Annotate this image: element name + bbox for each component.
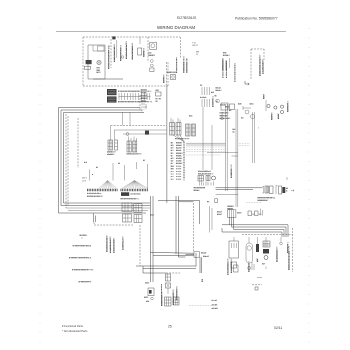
bus to compressor: [186, 143, 225, 145]
drain heater dash: [257, 277, 262, 279]
dispenser left ticks P9: [202, 87, 210, 95]
svg-text:240 V: 240 V: [82, 178, 88, 180]
control board connector J3 fan: [121, 181, 149, 191]
start device ticks: [200, 182, 214, 186]
damper drops: [111, 112, 130, 140]
dashed drop to auger line: [139, 225, 141, 266]
ice maker: [151, 44, 155, 48]
board-right wires: [158, 201, 200, 225]
svg-text:WIRING DIAGRAM: WIRING DIAGRAM: [157, 25, 195, 30]
damper wires: [111, 125, 167, 127]
auger feed line top: [136, 253, 196, 269]
svg-text:Publication No. 5995586077: Publication No. 5995586077: [235, 17, 278, 21]
left risers to funnel: [151, 196, 154, 282]
fold line left: [39, 28, 41, 348]
defrost bus lines: [216, 188, 263, 190]
svg-text:22: 22: [196, 54, 198, 56]
fresh food enclosure dashes: [242, 228, 293, 272]
dispenser risers: [253, 112, 255, 163]
compressor box double walls: [207, 104, 238, 207]
auger motor column: [166, 274, 171, 281]
water valve comb: [227, 210, 236, 218]
neutral dotted line: [189, 305, 211, 307]
defrost connector pair B: [127, 137, 142, 156]
svg-text:1. SEE TECH DATA: 1. SEE TECH DATA: [73, 244, 92, 247]
flow arrow: [245, 81, 249, 85]
connector grid pair 1: [170, 118, 182, 135]
freezer terminal block dark: [107, 89, 117, 95]
svg-text:# Functional Parts: # Functional Parts: [62, 324, 84, 328]
valve body boxes: [248, 211, 252, 216]
lower dashes: [252, 284, 262, 286]
freezer section enclosure: [83, 37, 180, 86]
mullion heater bar: [256, 244, 259, 252]
freezer ice maker divider: [147, 37, 149, 62]
dispenser enclosure dashed: [251, 49, 264, 80]
start device parts: [198, 176, 216, 182]
svg-text:DEFROST: DEFROST: [163, 73, 165, 83]
fold line right: [308, 28, 310, 348]
svg-text:02/11: 02/11: [274, 326, 282, 330]
risers to funnel: [176, 196, 178, 257]
defrost connector pair A: [107, 140, 118, 156]
svg-text:EI27BS26JS: EI27BS26JS: [177, 16, 197, 20]
sensor box: [138, 48, 142, 55]
evap fan motor: [171, 75, 176, 80]
riser pair below bus: [94, 214, 96, 223]
main top bus wires: [59, 108, 145, 214]
svg-text:HARNESS: HARNESS: [143, 47, 146, 57]
header rule: [56, 31, 286, 33]
freezer door switch dark block: [86, 60, 92, 64]
terminal strip ticks: [119, 93, 150, 100]
liner bottom wire: [93, 78, 123, 80]
light shield box: [84, 66, 90, 69]
J3 pin blocks: [121, 192, 129, 196]
dotted stubs right of box: [239, 143, 250, 145]
dispenser solenoid circles: [267, 104, 270, 107]
funnel connector: [151, 253, 195, 258]
connector grid pair 2: [186, 124, 196, 136]
svg-text:L1 N: L1 N: [82, 180, 87, 182]
freezer light: [97, 60, 101, 64]
ff door switch: [263, 241, 270, 247]
wire label column: [171, 142, 184, 165]
svg-text:25: 25: [168, 325, 172, 329]
liner inner detail: [93, 45, 105, 51]
condensate heater cluster: [262, 186, 294, 195]
long vertical to board: [166, 86, 168, 203]
power boxes on bus: [122, 203, 132, 212]
bottom bus wires: [59, 203, 151, 213]
ff light tube: [246, 243, 253, 263]
crisper box: [229, 241, 239, 258]
thermistor drop: [221, 112, 223, 117]
control board connector J2 fan: [87, 181, 118, 191]
svg-text:TECHNICAL SHEET: TECHNICAL SHEET: [106, 234, 109, 252]
auger sol drop: [203, 107, 212, 170]
UI board: [221, 103, 228, 110]
damper block: [145, 131, 149, 135]
ff drops: [234, 237, 281, 244]
defrost stat dashed drop: [165, 62, 167, 86]
ladder line: [183, 141, 185, 182]
risers to terminal strip: [140, 95, 144, 113]
left dashed risers: [66, 114, 78, 208]
auger feed lower: [143, 266, 166, 273]
freezer liner box: [88, 45, 105, 79]
bus to fresh food: [222, 217, 288, 237]
fill tube heater: [150, 60, 153, 63]
drop labels above J2: [84, 160, 148, 189]
svg-text:BK-22: BK-22: [193, 45, 198, 47]
technical sheet pointer: [94, 222, 133, 225]
svg-text:* Non-Illustrated Parts: * Non-Illustrated Parts: [62, 329, 88, 333]
svg-text:DOOR AJAR ALARM: DOOR AJAR ALARM: [125, 41, 128, 59]
dark blob top: [112, 36, 115, 39]
svg-text:LIGHT SWITCH ASM: LIGHT SWITCH ASM: [113, 44, 116, 62]
